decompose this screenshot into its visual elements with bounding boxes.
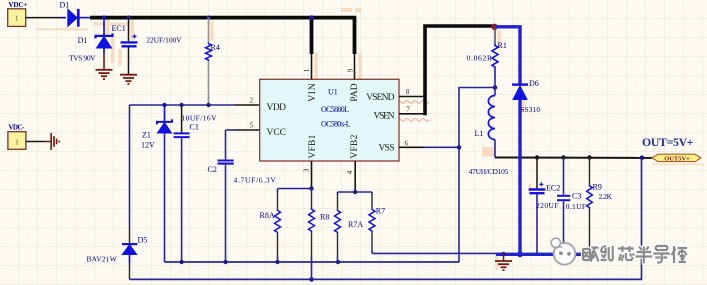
svg-text:10UF/16V: 10UF/16V (182, 114, 218, 123)
resistor R7 (369, 192, 375, 253)
svg-text:1: 1 (15, 137, 19, 146)
capacitor C2 (218, 130, 234, 262)
wire VDD net (130, 104, 235, 106)
wire VIN+ bus (thick) (90, 18, 355, 54)
svg-text:VIN: VIN (308, 83, 318, 102)
port OUT5V+ (652, 154, 701, 162)
svg-text:VFB1: VFB1 (308, 134, 318, 158)
junction node R1/L1 (493, 85, 498, 90)
junction PGND dots (502, 252, 506, 256)
svg-text:4: 4 (346, 170, 354, 174)
capacitor C3 (557, 158, 570, 255)
pin 6 (399, 139, 424, 147)
diode D5 (122, 105, 137, 279)
resistor R7A (335, 192, 341, 262)
wire VSEND/VSEN thick black (425, 26, 495, 115)
svg-text:R7A: R7A (348, 220, 363, 229)
junction dots on bus (102, 15, 314, 20)
svg-text:BAV21W: BAV21W (87, 254, 118, 263)
zener Z1 (157, 105, 172, 262)
junction dots VDD (162, 103, 210, 107)
svg-text:D6: D6 (529, 79, 539, 88)
svg-text:0.062R: 0.062R (467, 53, 493, 62)
junction dots rail1 (179, 260, 340, 264)
svg-text:R4: R4 (211, 43, 220, 52)
svg-text:EC1: EC1 (112, 24, 126, 33)
svg-text:VDC+: VDC+ (8, 1, 27, 9)
wire rail2 (OUT bottom) (130, 158, 642, 280)
ground (VDC-) sideways (51, 133, 59, 150)
svg-text:220UF: 220UF (536, 201, 559, 210)
svg-text:TVS 90V: TVS 90V (69, 54, 96, 63)
svg-text:C2: C2 (208, 165, 217, 174)
wire VSS net (459, 88, 495, 263)
TVS diode D1 (96, 18, 113, 54)
svg-text:R1: R1 (498, 41, 507, 50)
svg-text:PAD: PAD (350, 83, 360, 102)
pin 1 (303, 54, 312, 79)
svg-text:VFB2: VFB2 (350, 134, 360, 158)
svg-text:1: 1 (15, 14, 19, 23)
ground (EC1) (120, 75, 137, 84)
wire VIN drop to pin1 (310, 18, 314, 54)
ground (TVS) (96, 54, 113, 80)
svg-text:EC2: EC2 (546, 184, 560, 193)
svg-text:6: 6 (405, 139, 409, 147)
svg-text:9: 9 (346, 68, 354, 72)
ground (power) (495, 253, 512, 270)
svg-text:VSEN: VSEN (374, 111, 395, 121)
svg-text:OUT=5V+: OUT=5V+ (642, 135, 694, 149)
capacitor C1 (174, 105, 190, 262)
svg-text:U1: U1 (328, 88, 338, 97)
diode D1 (62, 9, 91, 27)
svg-text:Z1: Z1 (142, 131, 151, 140)
svg-text:VDC-: VDC- (8, 123, 25, 131)
svg-text:OC5800L: OC5800L (321, 105, 349, 114)
svg-text:D5: D5 (138, 235, 148, 244)
svg-text:47UH/CD105: 47UH/CD105 (469, 167, 509, 176)
IC U1 OC5800L (260, 79, 399, 161)
port VDC+ (8, 1, 28, 27)
svg-text:VSS: VSS (379, 144, 395, 154)
wire PGND thin (372, 252, 497, 254)
svg-text:D1: D1 (60, 0, 70, 9)
svg-text:R9: R9 (593, 182, 602, 191)
resistor R8A (275, 189, 281, 263)
svg-text:SS310: SS310 (520, 105, 540, 114)
inductor L1 (488, 88, 495, 158)
svg-text:VDD: VDD (267, 103, 287, 113)
capacitor EC1 (121, 18, 138, 74)
svg-text:22UF/100V: 22UF/100V (146, 36, 182, 45)
svg-text:OC580x-L: OC580x-L (321, 120, 351, 129)
resistor R8 (309, 189, 315, 280)
svg-text:C1: C1 (190, 123, 199, 132)
svg-text:4.7UF/6.3V: 4.7UF/6.3V (234, 176, 277, 185)
svg-text:2.2K: 2.2K (599, 192, 613, 201)
wire rail1 (VSS bottom) (165, 261, 460, 263)
wire VDC- to ground (26, 141, 44, 143)
svg-text:L1: L1 (475, 129, 484, 138)
svg-text:12V: 12V (141, 140, 155, 149)
wire PGND thick (496, 253, 591, 256)
wire thick blue D6 to PGND (518, 100, 521, 255)
watermark logo (551, 238, 575, 264)
svg-text:R7: R7 (376, 207, 385, 216)
svg-text:2: 2 (250, 96, 254, 104)
pin 8 (399, 88, 425, 96)
capacitor EC2 (529, 158, 546, 255)
wire thick blue to D6 (495, 27, 521, 85)
pin 4 (346, 161, 355, 192)
svg-text:OUT5V+: OUT5V+ (664, 155, 690, 162)
pin 7 (399, 106, 425, 114)
wire VFB2 tap (338, 191, 373, 193)
svg-text:5: 5 (250, 122, 254, 130)
resistor R1 (492, 27, 498, 88)
junction VSS pin (457, 145, 461, 149)
junction dots OUT rail (535, 155, 592, 159)
svg-text:VSEND: VSEND (366, 93, 394, 103)
pin 3 (303, 161, 312, 189)
wire VDC+ to D1 (26, 17, 64, 19)
svg-text:3: 3 (303, 168, 311, 172)
resistor R9 (587, 158, 593, 255)
pin 9 (346, 54, 354, 79)
watermark text 欧创芯半导体 (583, 246, 688, 264)
svg-text:C3: C3 (572, 192, 581, 201)
wire OUT rail (495, 157, 652, 159)
svg-text:7: 7 (406, 106, 410, 114)
junction node SW (red) (491, 24, 497, 30)
svg-text:0.1UF: 0.1UF (566, 202, 586, 211)
wire VFB1 tap (278, 188, 312, 190)
svg-text:VCC: VCC (267, 128, 287, 138)
wire VCC net (235, 129, 260, 131)
wire VSS horizontal (424, 146, 459, 148)
diode D6 (512, 85, 528, 100)
svg-text:D1: D1 (78, 36, 88, 45)
svg-text:R8A: R8A (260, 211, 275, 220)
svg-text:8: 8 (406, 88, 410, 96)
watermark squiggles (397, 101, 429, 121)
port VDC- (8, 123, 26, 149)
svg-text:R8: R8 (320, 212, 329, 221)
junction rail2 (309, 277, 314, 282)
resistor R4 (206, 18, 212, 105)
svg-text:1: 1 (303, 68, 311, 72)
